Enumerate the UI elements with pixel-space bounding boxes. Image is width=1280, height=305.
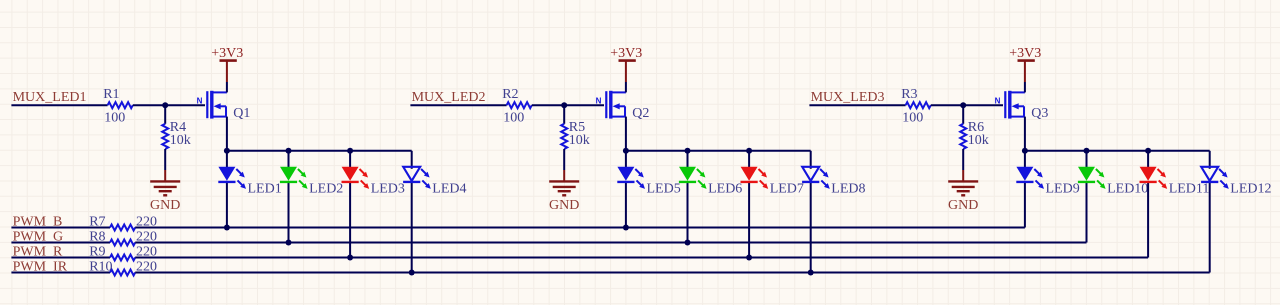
LED LED10 cathode lead wire: [1086, 182, 1088, 243]
LED LED4 cathode lead wire: [411, 182, 413, 273]
junction LED5-bus: [623, 225, 629, 231]
LED LED4 anode lead: [411, 151, 413, 169]
wire PWM_G left segment: [11, 242, 110, 244]
LED LED5 cathode lead wire: [625, 182, 627, 228]
svg-text:+3V3: +3V3: [610, 46, 642, 61]
junction LED2-bus: [286, 240, 292, 246]
LED LED3 anode lead: [349, 151, 351, 169]
svg-text:+3V3: +3V3: [211, 46, 243, 61]
resistor R7: [110, 225, 135, 231]
svg-text:100: 100: [104, 111, 125, 126]
resistor R9: [110, 255, 135, 261]
LED LED7: [741, 167, 758, 181]
svg-text:LED10: LED10: [1107, 182, 1148, 197]
junction at gate node 1: [162, 102, 168, 108]
junction at gate node 3: [960, 102, 966, 108]
wire PWM_G bus to LED10: [135, 242, 1086, 244]
LED LED6: [679, 167, 696, 181]
svg-text:GND: GND: [948, 198, 978, 213]
wire PWM_R bus to LED11: [135, 257, 1148, 259]
svg-text:LED1: LED1: [248, 182, 282, 197]
wire junction to R5: [563, 105, 565, 124]
resistor R1: [108, 102, 133, 108]
svg-text:MUX_LED3: MUX_LED3: [811, 90, 885, 105]
svg-text:LED2: LED2: [309, 182, 343, 197]
LED LED9: [1016, 167, 1033, 181]
wire LED anode rail 2: [626, 150, 811, 152]
junction rail-LED9: [1022, 148, 1028, 154]
LED LED8 cathode lead wire: [810, 182, 812, 273]
junction at gate node 2: [561, 102, 567, 108]
wire MUX_LED2 to R2: [410, 104, 506, 106]
wire PWM_IR left segment: [11, 272, 110, 274]
wire PWM_B left segment: [11, 227, 110, 229]
svg-text:R2: R2: [502, 87, 518, 102]
LED LED1 anode lead: [226, 151, 228, 169]
svg-text:LED4: LED4: [432, 182, 466, 197]
svg-text:10k: 10k: [968, 133, 989, 148]
ground GND 2: [549, 170, 579, 195]
wire source of Q3 to LED rail: [1024, 117, 1026, 151]
svg-text:100: 100: [503, 111, 524, 126]
svg-text:LED7: LED7: [770, 182, 804, 197]
resistor R5: [561, 124, 567, 149]
LED LED3 cathode lead wire: [349, 182, 351, 258]
LED LED7 anode lead: [748, 151, 750, 169]
LED LED11 anode lead: [1147, 151, 1149, 169]
wire R5 to ground: [563, 149, 565, 170]
junction rail-LED11: [1145, 148, 1151, 154]
svg-text:N: N: [197, 96, 203, 105]
wire PWM_IR bus to LED12: [135, 272, 1210, 274]
svg-text:LED8: LED8: [831, 182, 865, 197]
LED LED1: [218, 167, 235, 181]
wire LED anode rail 1: [227, 150, 412, 152]
junction rail-LED6: [685, 148, 691, 154]
LED LED9 cathode lead wire: [1024, 182, 1026, 228]
LED LED2 anode lead: [288, 151, 290, 169]
svg-text:LED11: LED11: [1169, 182, 1210, 197]
svg-text:LED5: LED5: [647, 182, 681, 197]
svg-text:+3V3: +3V3: [1009, 46, 1041, 61]
junction LED3-bus: [347, 255, 353, 261]
svg-text:R8: R8: [89, 229, 105, 244]
ground GND 3: [948, 170, 978, 195]
LED LED12: [1201, 167, 1218, 181]
junction LED4-bus: [409, 270, 415, 276]
svg-text:LED6: LED6: [708, 182, 742, 197]
LED LED5 anode lead: [625, 151, 627, 169]
mosfet Q3: [1005, 91, 1025, 119]
junction LED6-bus: [685, 240, 691, 246]
svg-text:LED9: LED9: [1046, 182, 1080, 197]
wire +3V3 to drain of Q2: [625, 82, 627, 92]
LED LED6 anode lead: [687, 151, 689, 169]
wire source of Q1 to LED rail: [226, 117, 228, 151]
power +3V3 2: [619, 61, 636, 82]
svg-text:R3: R3: [901, 87, 917, 102]
svg-text:R9: R9: [89, 244, 105, 259]
LED LED3: [342, 167, 359, 181]
junction rail-LED2: [286, 148, 292, 154]
resistor R8: [110, 240, 135, 246]
LED LED8: [802, 167, 819, 181]
resistor R3: [906, 102, 931, 108]
LED LED12 anode lead: [1209, 151, 1211, 169]
wire PWM_B bus to LED9: [135, 227, 1025, 229]
LED LED6 cathode lead wire: [687, 182, 689, 243]
mosfet Q2: [606, 91, 626, 119]
wire MUX_LED1 to R1: [11, 104, 107, 106]
junction rail-LED3: [347, 148, 353, 154]
wire junction to R4: [164, 105, 166, 124]
wire LED anode rail 3: [1025, 150, 1210, 152]
svg-text:10k: 10k: [569, 133, 590, 148]
wire +3V3 to drain of Q1: [226, 82, 228, 92]
LED LED11 cathode lead wire: [1147, 182, 1149, 258]
LED LED5: [617, 167, 634, 181]
svg-text:R10: R10: [89, 259, 112, 274]
junction LED1-bus: [224, 225, 230, 231]
svg-text:10k: 10k: [170, 133, 191, 148]
junction rail-LED5: [623, 148, 629, 154]
LED LED10 anode lead: [1086, 151, 1088, 169]
LED LED11: [1140, 167, 1157, 181]
junction rail-LED7: [746, 148, 752, 154]
wire source of Q2 to LED rail: [625, 117, 627, 151]
power +3V3 3: [1018, 61, 1035, 82]
svg-text:Q2: Q2: [632, 106, 649, 121]
svg-text:MUX_LED2: MUX_LED2: [412, 90, 486, 105]
svg-text:Q1: Q1: [233, 106, 250, 121]
svg-text:GND: GND: [549, 198, 579, 213]
ground GND 1: [150, 170, 180, 195]
mosfet Q1: [207, 91, 227, 119]
svg-text:LED3: LED3: [371, 182, 405, 197]
resistor R4: [162, 124, 168, 149]
wire junction to R6: [962, 105, 964, 124]
wire MUX_LED3 to R3: [809, 104, 905, 106]
LED LED12 cathode lead wire: [1209, 182, 1211, 273]
LED LED2 cathode lead wire: [288, 182, 290, 243]
resistor R10: [110, 270, 135, 276]
svg-text:Q3: Q3: [1031, 106, 1048, 121]
wire R4 to ground: [164, 149, 166, 170]
LED LED4: [403, 167, 420, 181]
wire +3V3 to drain of Q3: [1024, 82, 1026, 92]
svg-text:GND: GND: [150, 198, 180, 213]
power +3V3 1: [220, 61, 237, 82]
junction LED7-bus: [746, 255, 752, 261]
svg-text:R1: R1: [103, 87, 119, 102]
svg-text:100: 100: [902, 111, 923, 126]
junction rail-LED1: [224, 148, 230, 154]
svg-text:N: N: [596, 96, 602, 105]
LED LED8 anode lead: [810, 151, 812, 169]
svg-text:LED12: LED12: [1230, 182, 1271, 197]
wire R1 to gate of Q1: [133, 104, 205, 106]
wire R3 to gate of Q3: [931, 104, 1003, 106]
wire R2 to gate of Q2: [532, 104, 604, 106]
svg-text:N: N: [995, 96, 1001, 105]
junction rail-LED10: [1084, 148, 1090, 154]
LED LED2: [280, 167, 297, 181]
LED LED1 cathode lead wire: [226, 182, 228, 228]
resistor R2: [507, 102, 532, 108]
junction LED8-bus: [808, 270, 814, 276]
LED LED9 anode lead: [1024, 151, 1026, 169]
wire R6 to ground: [962, 149, 964, 170]
svg-text:R7: R7: [89, 214, 105, 229]
svg-text:MUX_LED1: MUX_LED1: [13, 90, 87, 105]
LED LED10: [1078, 167, 1095, 181]
wire PWM_R left segment: [11, 257, 110, 259]
LED LED7 cathode lead wire: [748, 182, 750, 258]
resistor R6: [960, 124, 966, 149]
